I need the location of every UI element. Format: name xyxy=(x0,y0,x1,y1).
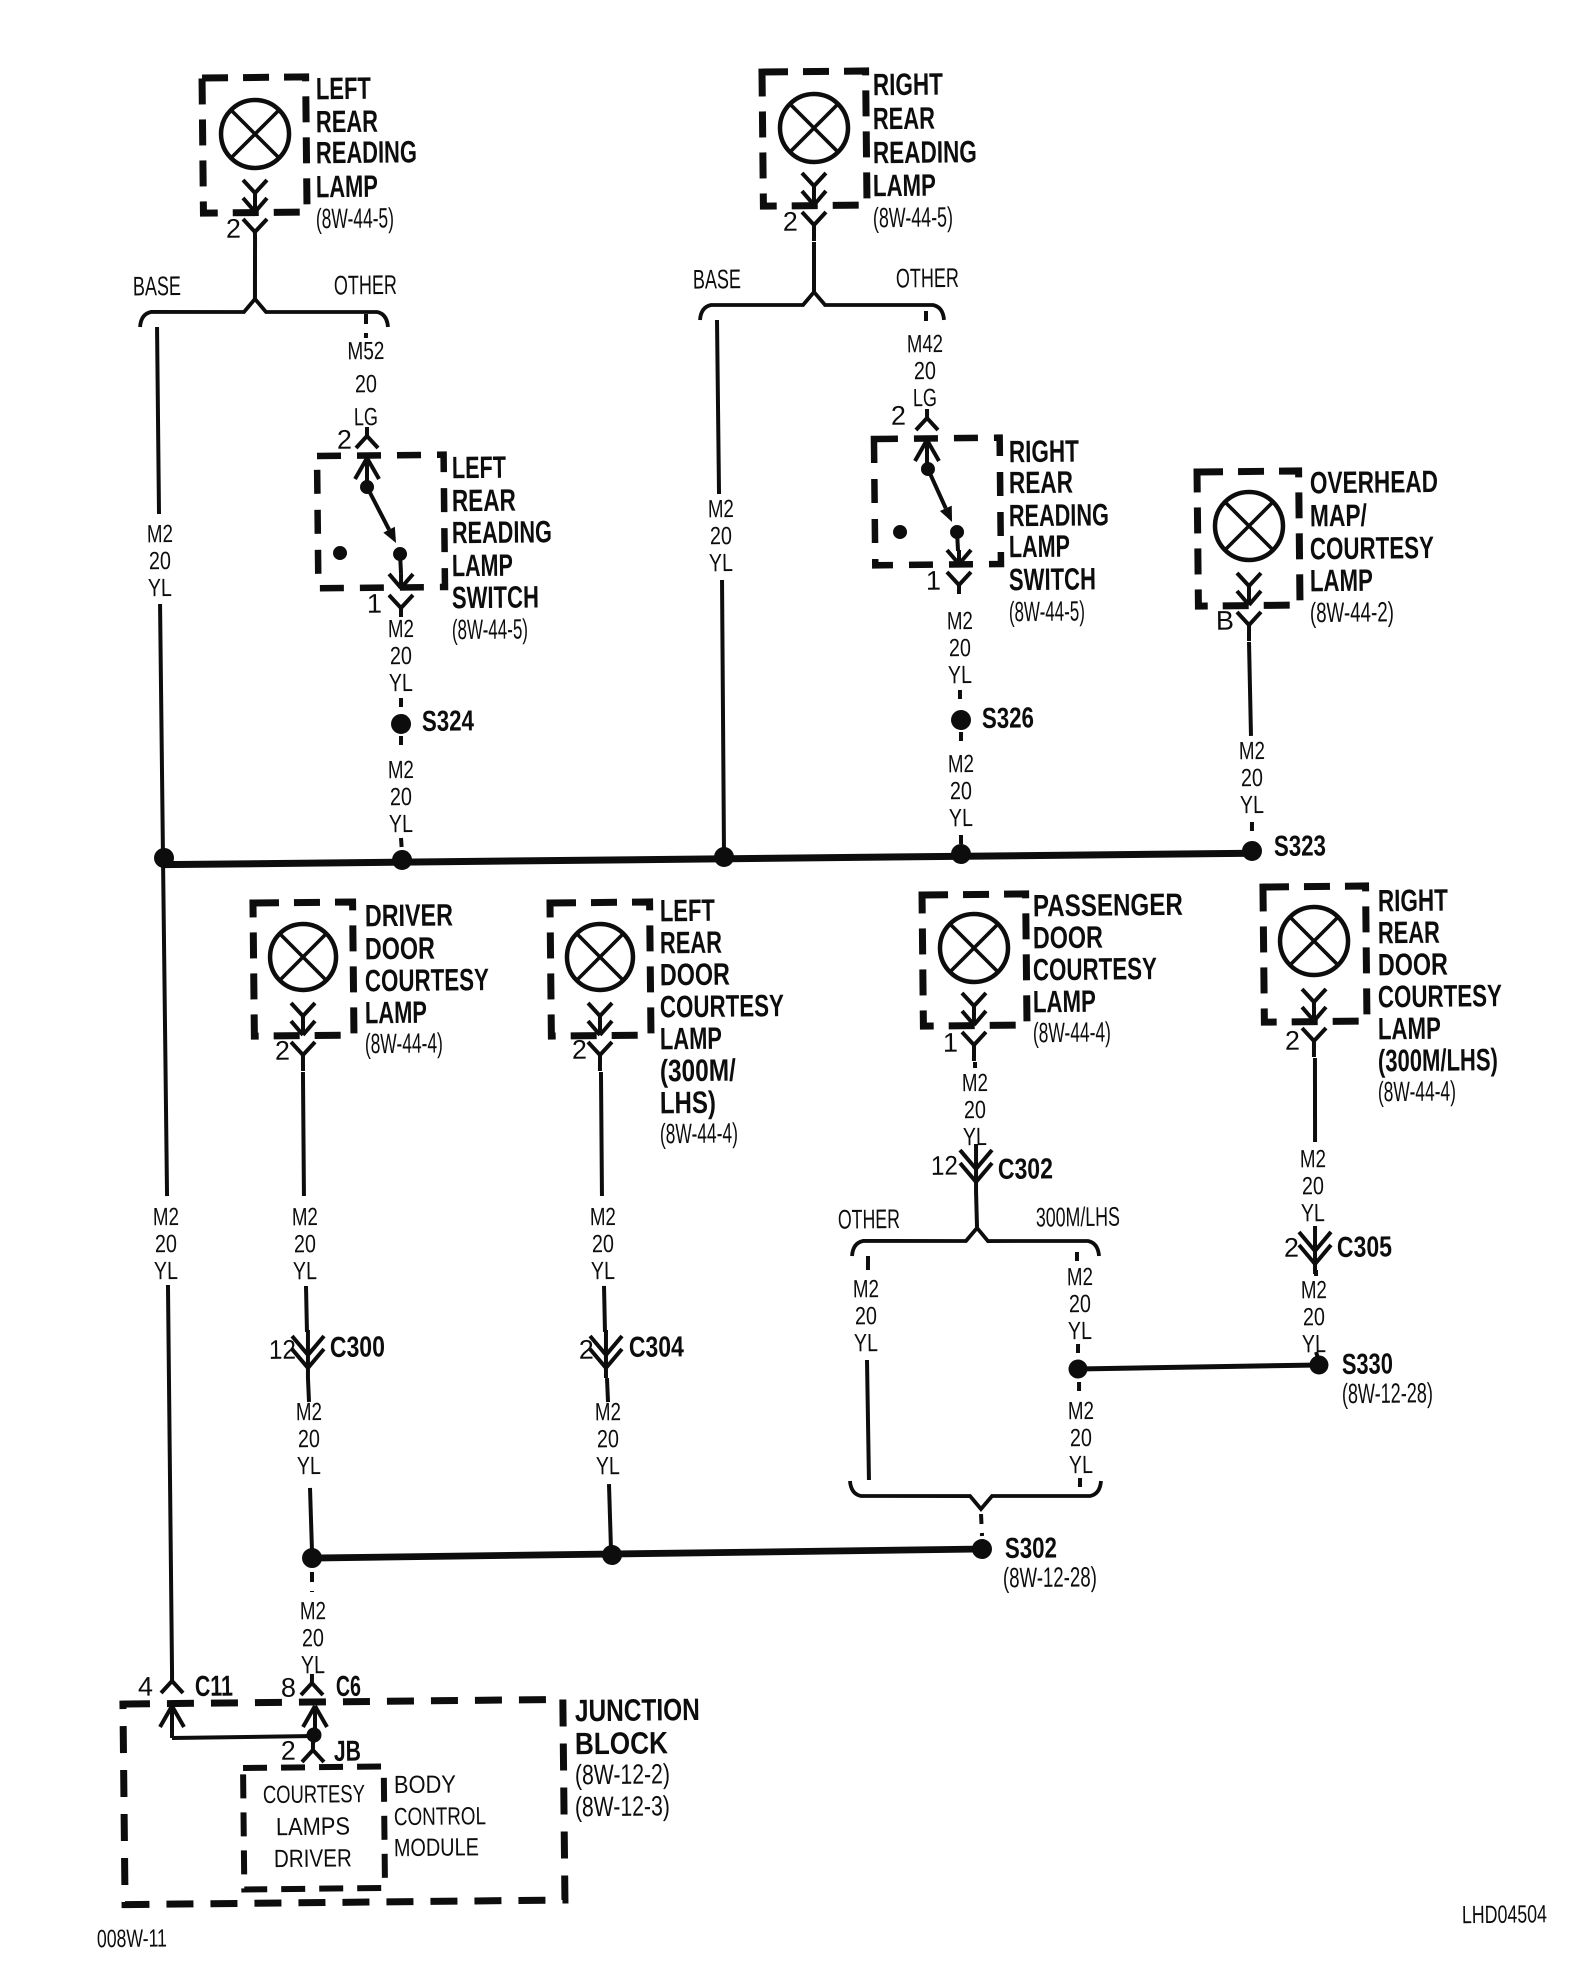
brace BASE/OTHER split (left lamp) xyxy=(133,269,398,330)
label OVERHEAD MAP/COURTESY LAMP text xyxy=(1308,464,1439,628)
svg-text:COURTESY: COURTESY xyxy=(1033,951,1158,987)
svg-text:(8W-12-28): (8W-12-28) xyxy=(1342,1377,1433,1409)
svg-text:20: 20 xyxy=(355,370,377,398)
label LEFT REAR READING LAMP text xyxy=(314,70,417,234)
connector C6 pin 8 into junction block xyxy=(281,1671,362,1729)
wire M2 20 YL: passenger door lamp to connector C302 xyxy=(962,1062,989,1151)
svg-text:YL: YL xyxy=(854,1329,878,1357)
svg-text:20: 20 xyxy=(1069,1290,1091,1318)
svg-text:MODULE: MODULE xyxy=(394,1833,479,1862)
svg-text:M2: M2 xyxy=(388,615,414,643)
body control module: COURTESY LAMPS DRIVER dashed box xyxy=(243,1767,385,1890)
brace BASE/OTHER split (right lamp) xyxy=(693,262,960,323)
svg-text:C304: C304 xyxy=(629,1331,684,1364)
splice S302 xyxy=(972,1532,1097,1594)
junction node on bus (S324 wire) xyxy=(392,850,412,870)
svg-text:MAP/: MAP/ xyxy=(1310,498,1368,534)
svg-text:LAMP: LAMP xyxy=(873,168,936,204)
svg-text:YL: YL xyxy=(1068,1317,1092,1345)
label LEFT REAR READING LAMP SWITCH text xyxy=(450,449,553,645)
svg-text:M2: M2 xyxy=(947,607,973,635)
svg-text:M2: M2 xyxy=(1067,1263,1093,1291)
svg-text:20: 20 xyxy=(710,522,732,550)
svg-text:M42: M42 xyxy=(907,330,943,358)
svg-text:(8W-44-5): (8W-44-5) xyxy=(1009,595,1085,627)
splice S326 xyxy=(951,702,1034,735)
wire M2 20 YL: S324 to bus xyxy=(388,736,415,852)
svg-text:LAMP: LAMP xyxy=(1033,984,1096,1020)
svg-text:20: 20 xyxy=(149,547,171,575)
svg-text:2: 2 xyxy=(1285,1026,1300,1056)
wire M2 20 YL: bus down to junction block C11 (left column) xyxy=(149,862,183,1672)
pin 1 of left switch xyxy=(367,588,413,618)
svg-text:S302: S302 xyxy=(1005,1532,1057,1565)
svg-text:LAMP: LAMP xyxy=(1378,1011,1441,1047)
label RIGHT REAR READING LAMP text xyxy=(871,66,977,233)
svg-text:20: 20 xyxy=(964,1096,986,1124)
junction node on lower bus (C304 wire) xyxy=(602,1545,622,1565)
svg-text:LEFT: LEFT xyxy=(316,71,371,107)
svg-text:YL: YL xyxy=(389,810,413,838)
svg-text:BLOCK: BLOCK xyxy=(575,1725,669,1761)
svg-text:20: 20 xyxy=(390,642,412,670)
svg-text:M2: M2 xyxy=(300,1597,326,1625)
svg-text:2: 2 xyxy=(337,425,352,455)
svg-text:8: 8 xyxy=(281,1673,296,1703)
svg-text:REAR: REAR xyxy=(1009,465,1073,501)
svg-text:M2: M2 xyxy=(590,1203,616,1231)
svg-text:COURTESY: COURTESY xyxy=(660,988,785,1024)
svg-text:2: 2 xyxy=(1284,1233,1299,1263)
svg-text:2: 2 xyxy=(579,1335,594,1365)
wire M2 20 YL: C304 down to lower bus xyxy=(595,1378,623,1548)
wire M2 20 YL: OTHER branch down to closing brace xyxy=(853,1256,881,1480)
svg-text:M2: M2 xyxy=(1300,1145,1326,1173)
lower bus wire to splice S302 xyxy=(312,1549,982,1558)
svg-text:LEFT: LEFT xyxy=(660,893,715,929)
svg-text:20: 20 xyxy=(1241,764,1263,792)
lamp: LEFT REAR READING LAMP (dashed box) xyxy=(202,77,307,249)
lamp: OVERHEAD MAP/COURTESY LAMP (dashed box) xyxy=(1197,471,1300,642)
lamp: PASSENGER DOOR COURTESY LAMP (dashed box) xyxy=(922,894,1027,1062)
lamp: RIGHT REAR READING LAMP (dashed box) xyxy=(762,71,867,242)
svg-text:4: 4 xyxy=(138,1672,153,1702)
svg-text:(8W-44-5): (8W-44-5) xyxy=(452,613,528,645)
svg-text:YL: YL xyxy=(148,574,172,602)
svg-text:OTHER: OTHER xyxy=(896,263,959,294)
svg-text:REAR: REAR xyxy=(660,925,722,961)
svg-text:2: 2 xyxy=(783,207,798,237)
wire M2 20 YL: driver door lamp to connector C300 xyxy=(290,1072,319,1332)
svg-text:M2: M2 xyxy=(853,1275,879,1303)
svg-text:LHS): LHS) xyxy=(660,1085,716,1121)
svg-text:LAMP: LAMP xyxy=(316,169,378,205)
wire: right lamp pin 2 to BASE/OTHER brace xyxy=(813,242,814,292)
svg-text:BASE: BASE xyxy=(133,271,181,302)
wire M2 20 YL: BASE branch down to bus (left column) xyxy=(145,327,177,855)
svg-text:YL: YL xyxy=(297,1452,321,1480)
svg-text:RIGHT: RIGHT xyxy=(873,67,943,103)
svg-text:M2: M2 xyxy=(388,756,414,784)
svg-text:LEFT: LEFT xyxy=(452,450,506,486)
svg-text:20: 20 xyxy=(949,634,971,662)
svg-text:S324: S324 xyxy=(422,705,474,738)
svg-text:300M/LHS: 300M/LHS xyxy=(1036,1202,1120,1233)
svg-text:M2: M2 xyxy=(708,495,734,523)
svg-text:REAR: REAR xyxy=(1378,915,1440,951)
svg-text:LAMP: LAMP xyxy=(1009,529,1070,565)
switch: RIGHT REAR READING LAMP SWITCH xyxy=(874,438,1001,566)
svg-text:DOOR: DOOR xyxy=(1033,920,1103,956)
JB pin 2 (COURTESY LAMPS DRIVER input) xyxy=(281,1735,361,1769)
svg-text:M2: M2 xyxy=(292,1203,318,1231)
pin 1 of right switch xyxy=(926,565,971,595)
svg-text:20: 20 xyxy=(298,1425,320,1453)
svg-text:S330: S330 xyxy=(1342,1348,1393,1381)
svg-text:M52: M52 xyxy=(347,337,384,365)
svg-text:M2: M2 xyxy=(595,1398,621,1426)
svg-text:YL: YL xyxy=(949,804,973,832)
connector C300 pin 12 xyxy=(269,1329,386,1378)
wire M2 20 YL: left rear door lamp to connector C304 xyxy=(588,1072,617,1332)
wire: closing brace to splice S302 xyxy=(981,1514,982,1536)
svg-text:LG: LG xyxy=(913,384,937,412)
svg-text:DOOR: DOOR xyxy=(660,957,730,993)
svg-text:20: 20 xyxy=(390,783,412,811)
svg-text:READING: READING xyxy=(316,134,417,170)
svg-text:DRIVER: DRIVER xyxy=(365,897,453,933)
label JUNCTION BLOCK text xyxy=(574,1692,701,1822)
svg-text:PASSENGER: PASSENGER xyxy=(1033,887,1183,924)
svg-text:(8W-44-4): (8W-44-4) xyxy=(1378,1075,1456,1107)
closing brace joining OTHER and 300M/LHS branches xyxy=(850,1478,1101,1510)
svg-text:YL: YL xyxy=(389,669,413,697)
svg-text:DRIVER: DRIVER xyxy=(274,1844,352,1873)
svg-text:YL: YL xyxy=(1302,1330,1326,1358)
wire M2 20 YL: right switch to splice S326 xyxy=(947,607,974,706)
svg-text:2: 2 xyxy=(275,1036,290,1066)
svg-text:COURTESY: COURTESY xyxy=(365,962,490,998)
connector C302 pin 12 xyxy=(931,1143,1053,1192)
svg-text:12: 12 xyxy=(269,1335,296,1365)
brace OTHER/300M-LHS split xyxy=(838,1202,1121,1259)
svg-text:C305: C305 xyxy=(1337,1231,1392,1264)
connector C304 pin 2 xyxy=(579,1329,685,1378)
svg-text:20: 20 xyxy=(592,1230,614,1258)
junction node on bus (right BASE wire) xyxy=(714,847,734,867)
svg-text:(8W-12-3): (8W-12-3) xyxy=(575,1790,670,1822)
wire M2 20 YL: S326 to bus xyxy=(948,732,975,847)
svg-text:YL: YL xyxy=(1240,791,1264,819)
svg-text:OTHER: OTHER xyxy=(334,270,397,301)
wire: node to JB pin 2 of body control module xyxy=(313,1735,314,1744)
svg-text:20: 20 xyxy=(294,1230,316,1258)
svg-text:BASE: BASE xyxy=(693,264,741,295)
connector C305 pin 2 xyxy=(1284,1225,1393,1274)
junction node on bus (left wire) xyxy=(154,848,174,868)
svg-text:JB: JB xyxy=(334,1736,361,1768)
svg-text:RIGHT: RIGHT xyxy=(1378,883,1448,919)
svg-text:1: 1 xyxy=(926,566,941,596)
svg-text:(8W-12-28): (8W-12-28) xyxy=(1003,1561,1097,1593)
wire M2 20 YL: C300 down to lower bus xyxy=(296,1378,324,1550)
wire M2 20 YL: C305 down to splice S330 xyxy=(1301,1270,1328,1358)
svg-text:(8W-44-5): (8W-44-5) xyxy=(873,201,953,233)
svg-text:(8W-44-5): (8W-44-5) xyxy=(316,202,394,234)
label DRIVER DOOR COURTESY LAMP text xyxy=(363,897,490,1059)
svg-text:008W-11: 008W-11 xyxy=(97,1924,167,1953)
svg-text:SWITCH: SWITCH xyxy=(1009,561,1096,597)
label LEFT REAR DOOR COURTESY LAMP text xyxy=(657,892,785,1149)
svg-text:C300: C300 xyxy=(330,1331,385,1364)
svg-text:LAMPS: LAMPS xyxy=(276,1812,350,1841)
svg-text:READING: READING xyxy=(452,514,552,550)
svg-text:2: 2 xyxy=(891,401,906,431)
svg-text:LAMP: LAMP xyxy=(660,1021,722,1057)
svg-text:1: 1 xyxy=(943,1028,958,1058)
svg-text:OVERHEAD: OVERHEAD xyxy=(1310,464,1438,500)
wire M2 20 YL: overhead lamp pin B to splice S323 xyxy=(1238,642,1266,838)
splice S330 xyxy=(1309,1348,1433,1410)
wire: junction block internal elbow C11 to C6 node xyxy=(172,1736,314,1738)
svg-text:2: 2 xyxy=(572,1035,587,1065)
switch: LEFT REAR READING LAMP SWITCH xyxy=(317,455,445,589)
junction node on lower bus (C300 wire) xyxy=(302,1548,322,1568)
svg-text:2: 2 xyxy=(226,214,241,244)
svg-text:M2: M2 xyxy=(1239,737,1265,765)
junction node on bus (S326 wire) xyxy=(951,844,971,864)
svg-text:20: 20 xyxy=(914,357,936,385)
svg-text:LHD04504: LHD04504 xyxy=(1462,1900,1547,1929)
svg-text:YL: YL xyxy=(596,1452,620,1480)
svg-text:LAMP: LAMP xyxy=(1310,563,1373,599)
wire M52 20 LG: OTHER branch to left switch xyxy=(336,314,386,455)
junction node (300M/LHS branch to S330 wire) xyxy=(1068,1359,1087,1378)
svg-text:DOOR: DOOR xyxy=(1378,947,1448,983)
connector C11 pin 4 into junction block xyxy=(138,1671,234,1739)
svg-text:(8W-44-4): (8W-44-4) xyxy=(365,1027,443,1059)
svg-text:M2: M2 xyxy=(1301,1276,1327,1304)
svg-text:YL: YL xyxy=(591,1257,615,1285)
wire M2 20 YL: right rear door lamp to connector C305 xyxy=(1299,1058,1327,1227)
wire: C302 to OTHER/300M-LHS brace xyxy=(974,1192,979,1227)
svg-text:20: 20 xyxy=(597,1425,619,1453)
lamp: RIGHT REAR DOOR COURTESY LAMP (dashed box) xyxy=(1263,886,1367,1058)
svg-text:YL: YL xyxy=(1069,1451,1093,1479)
svg-text:OTHER: OTHER xyxy=(838,1204,900,1235)
label RIGHT REAR READING LAMP SWITCH text xyxy=(1007,433,1110,627)
svg-text:S326: S326 xyxy=(982,702,1034,735)
lamp: LEFT REAR DOOR COURTESY LAMP (dashed box) xyxy=(550,902,651,1072)
svg-text:YL: YL xyxy=(948,661,972,689)
label BODY CONTROL MODULE text xyxy=(393,1770,486,1862)
svg-text:LAMP: LAMP xyxy=(452,548,513,584)
svg-text:READING: READING xyxy=(873,134,977,170)
svg-text:(8W-44-2): (8W-44-2) xyxy=(1310,596,1394,628)
wire M2 20 YL: left switch to splice S324 xyxy=(388,615,415,712)
wire M2 20 YL: right BASE branch down to bus xyxy=(706,320,738,855)
svg-text:YL: YL xyxy=(154,1257,178,1285)
splice S323 xyxy=(1242,830,1326,863)
svg-text:(8W-44-4): (8W-44-4) xyxy=(660,1117,738,1149)
wire: junction node to splice S330 xyxy=(1078,1365,1319,1369)
svg-text:JUNCTION: JUNCTION xyxy=(575,1692,700,1728)
svg-text:1: 1 xyxy=(367,589,382,619)
svg-text:COURTESY: COURTESY xyxy=(1310,530,1435,566)
svg-text:20: 20 xyxy=(1302,1172,1324,1200)
svg-text:B: B xyxy=(1216,606,1234,636)
svg-text:CONTROL: CONTROL xyxy=(394,1802,486,1831)
wire M42 20 LG: OTHER branch to right switch xyxy=(890,311,944,431)
svg-text:DOOR: DOOR xyxy=(365,931,435,967)
lamp: DRIVER DOOR COURTESY LAMP (dashed box) xyxy=(253,902,354,1072)
svg-text:S323: S323 xyxy=(1274,830,1326,863)
wire M2 20 YL: junction node down to closing brace xyxy=(1068,1382,1095,1488)
svg-text:20: 20 xyxy=(155,1230,177,1258)
svg-text:(8W-12-2): (8W-12-2) xyxy=(575,1758,670,1790)
svg-text:(8W-44-4): (8W-44-4) xyxy=(1033,1016,1111,1048)
svg-text:20: 20 xyxy=(855,1302,877,1330)
svg-text:COURTESY: COURTESY xyxy=(263,1780,366,1809)
svg-text:SWITCH: SWITCH xyxy=(452,579,539,615)
svg-text:C302: C302 xyxy=(998,1153,1053,1186)
label RIGHT REAR DOOR COURTESY LAMP text xyxy=(1376,882,1504,1107)
svg-text:M2: M2 xyxy=(948,750,974,778)
bus wire: main courtesy lamp feed xyxy=(163,853,1252,864)
svg-text:M2: M2 xyxy=(296,1398,322,1426)
svg-text:20: 20 xyxy=(950,777,972,805)
wire M2 20 YL: lower bus junction down to junction block C6 xyxy=(299,1572,326,1679)
svg-text:20: 20 xyxy=(1303,1303,1325,1331)
svg-text:2: 2 xyxy=(281,1736,296,1766)
svg-text:BODY: BODY xyxy=(394,1771,457,1800)
svg-text:M2: M2 xyxy=(962,1069,988,1097)
svg-text:REAR: REAR xyxy=(452,483,516,519)
svg-text:REAR: REAR xyxy=(873,101,935,137)
svg-text:20: 20 xyxy=(1070,1424,1092,1452)
svg-text:YL: YL xyxy=(293,1257,317,1285)
svg-text:COURTESY: COURTESY xyxy=(1378,978,1503,1014)
svg-text:12: 12 xyxy=(931,1151,958,1181)
svg-text:M2: M2 xyxy=(1068,1397,1094,1425)
svg-text:C11: C11 xyxy=(195,1671,233,1703)
wire M2 20 YL: 300M/LHS branch down to junction node xyxy=(1067,1252,1094,1356)
svg-text:(300M/: (300M/ xyxy=(660,1053,737,1089)
junction block dashed box xyxy=(123,1699,565,1904)
label PASSENGER DOOR COURTESY LAMP text xyxy=(1031,887,1184,1048)
svg-text:20: 20 xyxy=(302,1624,324,1652)
svg-text:YL: YL xyxy=(709,549,733,577)
svg-text:YL: YL xyxy=(1301,1199,1325,1227)
wire: left lamp pin 2 to BASE/OTHER brace xyxy=(254,248,255,299)
svg-text:M2: M2 xyxy=(153,1203,179,1231)
svg-text:M2: M2 xyxy=(147,520,173,548)
junction node inside junction block xyxy=(306,1727,321,1742)
svg-text:(300M/LHS): (300M/LHS) xyxy=(1378,1042,1498,1078)
svg-text:LAMP: LAMP xyxy=(365,995,427,1031)
splice S324 xyxy=(391,705,474,738)
